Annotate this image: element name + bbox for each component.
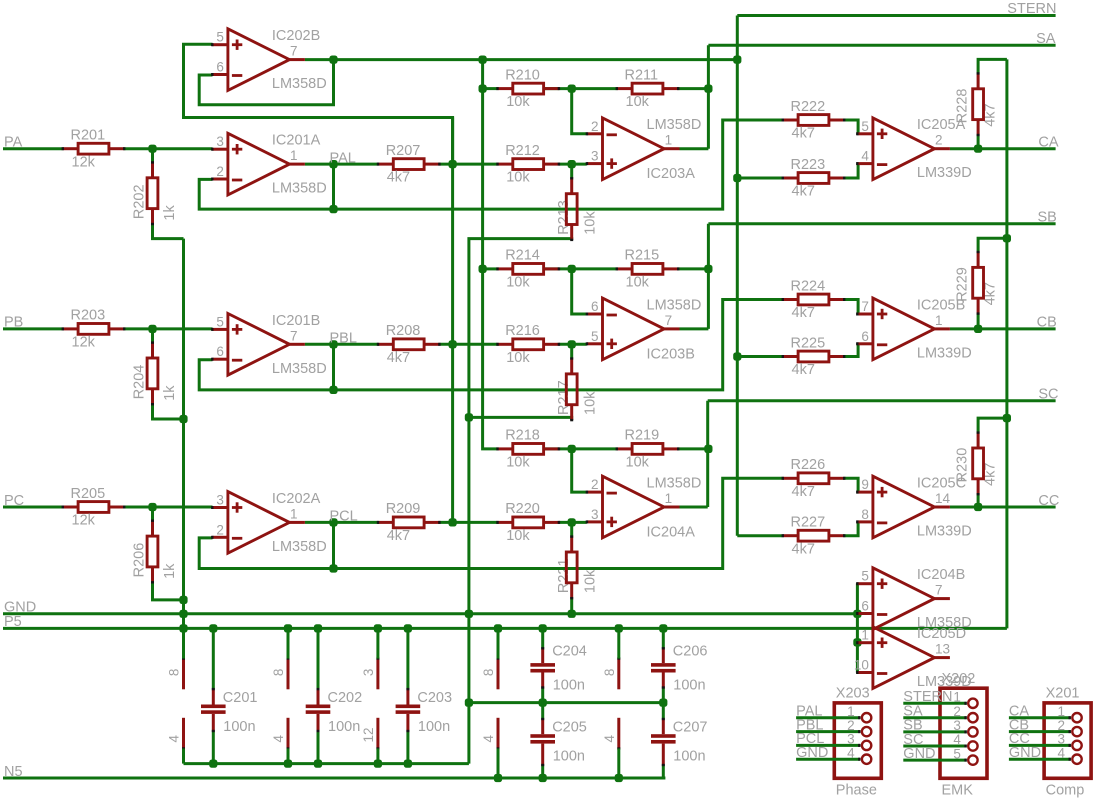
svg-text:4: 4: [167, 735, 182, 743]
wire net P5 riser: [1005, 59, 1008, 628]
junction R230/P5 riser: [1003, 414, 1011, 422]
svg-text:12k: 12k: [72, 154, 96, 170]
capacitor C202 100n: [306, 688, 362, 735]
svg-text:3: 3: [1057, 732, 1065, 747]
junction R204 jog: [179, 415, 187, 423]
resistor R219 10k: [616, 428, 680, 471]
resistor R221 10k: [566, 535, 577, 599]
power pins IC205 (3/12): [361, 628, 378, 763]
junction STERN/feedback: [329, 56, 337, 64]
junction IC205D pin1: [853, 638, 861, 646]
svg-text:1: 1: [847, 704, 855, 719]
svg-text:R220: R220: [505, 501, 540, 517]
junction branch/R210: [479, 85, 487, 93]
resistor R227 4k7: [782, 515, 846, 558]
junction PCL/R221: [568, 518, 576, 526]
junction R218/R219 jog: [568, 445, 576, 453]
resistor R205 12k: [62, 486, 126, 529]
svg-text:C203: C203: [417, 690, 452, 706]
svg-text:10k: 10k: [506, 170, 530, 186]
svg-text:10k: 10k: [626, 275, 650, 291]
op-amp IC202B (LM358D): [211, 28, 327, 92]
svg-text:X202: X202: [942, 671, 976, 687]
svg-text:2: 2: [847, 718, 855, 733]
svg-text:R216: R216: [505, 323, 540, 339]
svg-text:8: 8: [271, 669, 286, 677]
wire IC203A out: [680, 147, 709, 150]
wire R227 in: [737, 534, 782, 537]
svg-text:Comp: Comp: [1046, 783, 1085, 798]
wire R219 out row3: [678, 447, 708, 450]
wire IC204A pin2 jog: [572, 449, 587, 492]
junction feedback riser row1: [329, 205, 337, 213]
op-amp IC203B (LM358D): [586, 297, 702, 362]
wire R218-R219 row3: [544, 447, 617, 450]
svg-text:100n: 100n: [328, 719, 360, 735]
junction N5/col4: [494, 774, 502, 782]
svg-text:R223: R223: [791, 157, 826, 173]
wire R227 out jog: [844, 522, 858, 536]
svg-text:3: 3: [591, 507, 599, 522]
svg-text:4: 4: [481, 735, 496, 743]
op-amp IC201B (LM358D): [211, 313, 327, 377]
junction GND rail left: [179, 610, 187, 618]
wire net SA: [708, 44, 1055, 47]
wire IC201B feedback: [199, 300, 783, 390]
resistor R217 label: [556, 380, 598, 415]
resistor R206 label: [132, 543, 178, 579]
wire net PC (R205 to IC202A pin3): [124, 506, 212, 509]
svg-text:LM358D: LM358D: [272, 181, 327, 197]
op-amp IC202A (LM358D): [211, 491, 327, 555]
svg-text:PCL: PCL: [330, 509, 358, 525]
junction feedback riser row2: [329, 386, 337, 394]
svg-text:12: 12: [361, 727, 376, 742]
wire GND to IC204B/IC205D pins: [856, 583, 859, 672]
svg-text:1: 1: [290, 506, 298, 521]
svg-text:1: 1: [935, 313, 943, 328]
svg-text:IC201A: IC201A: [272, 133, 321, 149]
resistor R218 10k: [496, 428, 560, 471]
wire IC203B out: [680, 327, 709, 330]
svg-text:4: 4: [1057, 745, 1065, 760]
svg-text:100n: 100n: [223, 719, 255, 735]
svg-text:2: 2: [216, 522, 224, 537]
wire C207 top lead: [662, 703, 665, 719]
svg-text:R205: R205: [71, 486, 106, 502]
junction R210/R211/R213jog: [568, 85, 576, 93]
svg-text:P5: P5: [4, 614, 22, 630]
connector X202 (EMK): [903, 671, 987, 798]
svg-text:CB: CB: [1037, 315, 1057, 331]
junction R214/R215 jog: [568, 265, 576, 273]
wire net PAL: [305, 163, 378, 166]
svg-text:IC203B: IC203B: [647, 346, 695, 362]
wire R206 bottom jog: [153, 582, 184, 600]
wire R217 bottom jog: [469, 417, 572, 420]
svg-text:1: 1: [1057, 704, 1065, 719]
svg-text:100n: 100n: [673, 749, 705, 765]
svg-text:1: 1: [665, 133, 673, 148]
svg-text:4k7: 4k7: [792, 484, 815, 500]
op-amp IC204B (LM358D): [856, 567, 972, 631]
svg-text:1k: 1k: [162, 385, 178, 401]
wire C206 bottom lead: [662, 688, 665, 703]
junction star/PBL: [449, 340, 457, 348]
svg-text:LM339D: LM339D: [917, 524, 972, 540]
junction bus/C202: [314, 760, 322, 768]
svg-text:R210: R210: [505, 67, 540, 83]
svg-text:R203: R203: [71, 308, 106, 324]
svg-text:9: 9: [861, 477, 869, 492]
junction P5/C202: [314, 624, 322, 632]
op-amp IC205C (LM339D): [856, 476, 972, 540]
svg-text:R217: R217: [556, 380, 572, 415]
resistor R204 label: [132, 365, 178, 401]
capacitor C207 100n: [651, 718, 707, 766]
svg-text:5: 5: [861, 569, 869, 584]
wire R224 out jog: [844, 300, 858, 315]
resistor R202 1k: [147, 161, 158, 225]
junction PB/R204: [148, 325, 156, 333]
resistor R228 4k7: [973, 72, 984, 136]
svg-text:EMK: EMK: [942, 783, 974, 798]
svg-text:7: 7: [935, 583, 943, 598]
wire R214-R215 row2: [544, 267, 617, 270]
svg-text:3: 3: [216, 134, 224, 149]
wire IC201A feedback riser: [332, 164, 335, 209]
svg-text:4k7: 4k7: [792, 126, 815, 142]
svg-text:12k: 12k: [72, 335, 96, 351]
resistor R210 10k: [496, 67, 560, 110]
capacitor C201 100n: [201, 688, 257, 735]
wire IC203A pin2 jog: [572, 89, 587, 134]
wire net PA (R202 top): [151, 149, 154, 163]
svg-text:8: 8: [602, 669, 617, 677]
svg-text:10k: 10k: [626, 94, 650, 110]
junction P5/col5: [615, 624, 623, 632]
junction N5/C205: [539, 774, 547, 782]
svg-text:C207: C207: [673, 720, 708, 736]
wire R225 in: [737, 355, 782, 358]
wire net STERN top: [737, 14, 1055, 17]
junction N5/col5: [615, 774, 623, 782]
op-amp IC201A (LM358D): [211, 133, 327, 197]
junction GND vert/GND rail: [465, 610, 473, 618]
svg-text:IC204B: IC204B: [917, 567, 965, 583]
junction PBL/feedback riser: [329, 340, 337, 348]
junction P5/C206: [659, 624, 667, 632]
resistor R216 10k: [496, 323, 560, 366]
svg-text:LM358D: LM358D: [272, 361, 327, 377]
wire net PB (R204 top): [151, 329, 154, 343]
junction PA/R202: [148, 145, 156, 153]
junction STERN vertical top: [733, 56, 741, 64]
wire net SA vertical: [707, 45, 710, 149]
svg-text:4: 4: [861, 149, 869, 164]
svg-text:4: 4: [602, 735, 617, 743]
svg-text:IC205C: IC205C: [917, 476, 966, 492]
wire net PCL (R209 to R220): [439, 521, 497, 524]
wire R213 top lead: [570, 164, 573, 178]
svg-text:4: 4: [847, 745, 855, 760]
svg-text:4k7: 4k7: [792, 541, 815, 557]
wire net PAL (R207 to R212): [439, 163, 497, 166]
wire R228 top: [978, 59, 1007, 73]
svg-text:R208: R208: [386, 323, 421, 339]
svg-text:IC205D: IC205D: [917, 626, 966, 642]
capacitor C204 100n: [530, 643, 586, 693]
junction R215/SB vertical: [704, 265, 712, 273]
junction STERN/R223: [733, 174, 741, 182]
wire R215 out row2: [678, 267, 708, 270]
svg-text:C204: C204: [552, 643, 587, 659]
svg-text:7: 7: [290, 328, 298, 343]
svg-text:PBL: PBL: [330, 331, 357, 347]
svg-text:7: 7: [290, 44, 298, 59]
svg-text:R221: R221: [556, 558, 572, 593]
wire net STERN vertical: [736, 16, 739, 536]
junction GND/IC204B pins: [853, 610, 861, 618]
wire R202 bottom jog: [153, 224, 184, 239]
svg-text:X201: X201: [1046, 686, 1080, 702]
resistor R217 10k: [566, 357, 577, 421]
power pins IC202 (8/4): [271, 628, 288, 763]
svg-text:100n: 100n: [673, 678, 705, 694]
svg-text:C205: C205: [552, 720, 587, 736]
capacitor C206 100n: [651, 643, 707, 693]
wire R226 out jog: [844, 478, 858, 492]
junction GND vert/midbus: [465, 699, 473, 707]
svg-text:LM358D: LM358D: [647, 476, 702, 492]
wire net SC vertical: [706, 401, 709, 507]
svg-text:4: 4: [953, 732, 961, 747]
resistor R201 12k: [62, 128, 126, 171]
svg-text:IC205B: IC205B: [917, 297, 965, 313]
svg-text:100n: 100n: [553, 749, 585, 765]
wire IC201B feedback riser: [332, 344, 335, 390]
wire R229 bottom: [977, 314, 980, 329]
junction PAL/feedback riser: [329, 160, 337, 168]
svg-text:14: 14: [935, 491, 951, 506]
svg-text:LM339D: LM339D: [917, 345, 972, 361]
resistor R203 12k: [62, 308, 126, 351]
svg-text:R202: R202: [132, 184, 148, 219]
svg-text:LM358D: LM358D: [272, 76, 327, 92]
wire IC202A feedback riser: [332, 522, 335, 568]
svg-text:4k7: 4k7: [983, 282, 999, 305]
svg-text:PA: PA: [4, 135, 23, 151]
wire C203 bottom lead: [406, 731, 409, 764]
junction midbus/C204/C205: [539, 699, 547, 707]
wire net SC: [708, 399, 1056, 402]
svg-text:LM358D: LM358D: [647, 297, 702, 313]
wire net CB: [950, 327, 1056, 330]
wire C201 bottom lead: [212, 731, 215, 764]
wire IC202B feedback: [199, 60, 333, 105]
resistor R223 4k7: [782, 157, 846, 200]
svg-text:R218: R218: [505, 428, 540, 444]
svg-text:6: 6: [591, 299, 599, 314]
svg-text:10k: 10k: [506, 350, 530, 366]
junction branch/R214: [479, 265, 487, 273]
junction PCL/feedback riser: [329, 518, 337, 526]
svg-text:R204: R204: [132, 365, 148, 400]
svg-text:1: 1: [861, 628, 869, 643]
svg-text:5: 5: [216, 30, 224, 45]
junction PAL/R213: [568, 160, 576, 168]
junction CC/R230: [974, 503, 982, 511]
junction P5 rail left: [179, 624, 187, 632]
svg-text:1k: 1k: [162, 563, 178, 579]
svg-text:4: 4: [271, 735, 286, 743]
junction P5/col3: [374, 624, 382, 632]
svg-text:R206: R206: [132, 543, 148, 578]
wire net P5 rail: [3, 627, 1007, 630]
wire cap bus mid: [469, 701, 663, 704]
wire star node vertical: [451, 118, 454, 523]
svg-text:R226: R226: [791, 457, 826, 473]
svg-text:3: 3: [216, 493, 224, 508]
junction P5/col4: [494, 624, 502, 632]
svg-text:4k7: 4k7: [387, 528, 410, 544]
svg-text:PAL: PAL: [330, 150, 356, 166]
wire net SB: [708, 222, 1055, 225]
junction bus/col3: [374, 760, 382, 768]
svg-text:GND: GND: [796, 745, 828, 761]
svg-text:2: 2: [1057, 718, 1065, 733]
svg-text:8: 8: [167, 669, 182, 677]
wire C205 top lead: [541, 703, 544, 719]
junction P5/C204: [539, 624, 547, 632]
svg-text:8: 8: [481, 669, 496, 677]
svg-text:LM358D: LM358D: [647, 117, 702, 133]
svg-text:100n: 100n: [553, 678, 585, 694]
svg-text:12k: 12k: [72, 513, 96, 529]
junction midbus/C206/C207: [659, 699, 667, 707]
wire R221 bottom: [570, 598, 573, 614]
resistor R202 label: [132, 184, 178, 220]
resistor R207 4k7: [377, 143, 441, 186]
svg-text:5: 5: [953, 746, 961, 761]
svg-text:X203: X203: [836, 686, 870, 702]
wire net PBL (R208 to R216): [439, 343, 497, 346]
wire R230 top: [978, 418, 1007, 433]
svg-text:LM339D: LM339D: [917, 165, 972, 181]
op-amp IC205D (LM339D): [854, 626, 972, 690]
junction P5/C203: [404, 624, 412, 632]
wire IC204A out: [680, 506, 708, 509]
junction bus/C203: [404, 760, 412, 768]
svg-text:SB: SB: [1038, 209, 1057, 225]
wire net PC (R206 top): [151, 507, 154, 521]
wire net PA: [3, 147, 63, 150]
junction CB/R229: [974, 325, 982, 333]
svg-text:2: 2: [591, 119, 599, 134]
svg-text:4k7: 4k7: [792, 362, 815, 378]
svg-text:PB: PB: [4, 315, 23, 331]
junction CA/R228: [974, 145, 982, 153]
svg-text:C202: C202: [328, 690, 363, 706]
wire R229 top: [978, 238, 1007, 252]
wire R204 bottom jog: [153, 404, 184, 419]
svg-text:10: 10: [854, 658, 869, 673]
resistor R209 4k7: [377, 501, 441, 544]
svg-text:3: 3: [591, 149, 599, 164]
junction R206 jog: [179, 596, 187, 604]
svg-text:10k: 10k: [506, 455, 530, 471]
svg-text:7: 7: [665, 313, 673, 328]
junction R221/GND: [568, 610, 576, 618]
junction R229/P5 riser: [1003, 234, 1011, 242]
resistor R220 10k: [496, 501, 560, 544]
svg-text:GND: GND: [903, 746, 935, 762]
svg-text:7: 7: [861, 299, 869, 314]
junction R219/SC vertical: [704, 445, 712, 453]
wire R214 line row2: [483, 267, 498, 270]
svg-text:SC: SC: [1038, 387, 1058, 403]
wire R213 bottom jog: [469, 239, 572, 764]
wire net CC: [950, 506, 1056, 509]
wire IC202B pin5 to star node: [184, 44, 453, 164]
svg-text:R209: R209: [386, 501, 421, 517]
svg-text:1: 1: [290, 148, 298, 163]
wire net CA: [950, 147, 1056, 150]
wire R211 out row1: [678, 87, 708, 90]
svg-text:4k7: 4k7: [792, 184, 815, 200]
svg-text:IC202A: IC202A: [272, 491, 321, 507]
svg-text:4k7: 4k7: [983, 103, 999, 126]
svg-text:IC205A: IC205A: [917, 117, 966, 133]
resistor R215 10k: [616, 248, 680, 291]
wire IC201A feedback: [199, 120, 783, 209]
wire C204 bottom lead: [541, 688, 544, 703]
svg-text:IC204A: IC204A: [647, 525, 696, 541]
resistor R229 label: [955, 267, 999, 305]
wire net PBL (R216 to IC203B): [559, 343, 587, 346]
svg-text:3: 3: [361, 669, 376, 677]
svg-text:IC203A: IC203A: [647, 166, 696, 182]
wire C202 top lead: [317, 628, 320, 689]
op-amp IC204A (LM358D): [586, 476, 702, 541]
svg-text:1k: 1k: [162, 205, 178, 221]
wire net GND rail: [3, 612, 857, 615]
wire net PCL (R220 to IC204A): [559, 521, 587, 524]
svg-text:R211: R211: [625, 67, 659, 83]
resistor R222 4k7: [782, 99, 846, 142]
wire R217 top lead: [570, 344, 573, 358]
wire C207 bottom to N5: [662, 765, 665, 778]
wire C204 top lead: [541, 628, 544, 648]
wire IC203B pin6 jog: [572, 269, 587, 314]
svg-text:R225: R225: [791, 335, 826, 351]
junction bus/col2: [284, 760, 292, 768]
resistor R211 10k: [616, 67, 680, 110]
svg-text:5: 5: [216, 314, 224, 329]
wire R228 bottom: [977, 135, 980, 149]
svg-text:CC: CC: [1038, 493, 1059, 509]
wire net PAL (R212 to IC203A): [559, 163, 587, 166]
junction STERN/R225: [733, 352, 741, 360]
svg-text:CA: CA: [1038, 135, 1058, 151]
svg-text:R212: R212: [505, 143, 540, 159]
wire R230 bottom: [977, 494, 980, 507]
power pins IC201 (8/4): [167, 628, 184, 763]
svg-text:R201: R201: [71, 128, 106, 144]
svg-text:10k: 10k: [506, 275, 530, 291]
svg-text:10k: 10k: [626, 455, 650, 471]
resistor R206 1k: [147, 520, 158, 584]
